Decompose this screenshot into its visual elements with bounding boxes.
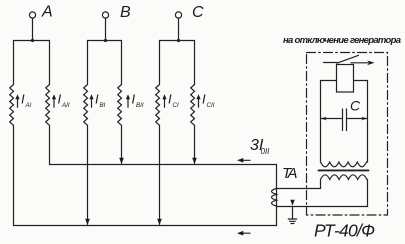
- node B junction: [104, 39, 107, 42]
- terminal B: [102, 12, 108, 18]
- wire branch B-I upper: [87, 41, 89, 85]
- arrow at ground tap: [290, 200, 294, 206]
- winding L-CI: [156, 85, 160, 126]
- wire branch B-II lower: [121, 125, 123, 163]
- winding L-AI: [10, 85, 14, 126]
- svg-text:I: I: [95, 92, 99, 107]
- svg-text:A: A: [41, 4, 53, 21]
- svg-text:AII: AII: [61, 102, 70, 109]
- relay contact blade: [337, 55, 359, 63]
- transformer T1 core: [319, 169, 369, 171]
- wire branch C-I upper: [159, 41, 161, 85]
- wire branch C-II lower: [194, 125, 196, 163]
- terminal C: [175, 12, 181, 18]
- transformer T1 primary winding: [321, 162, 368, 167]
- current arrow I_CI: [162, 92, 179, 110]
- transformer TA secondary winding: [272, 189, 277, 207]
- arrow left on capacitor branch: [321, 117, 327, 121]
- current arrow on bottom bus: [237, 231, 250, 236]
- wire B split: [88, 40, 122, 42]
- svg-text:BII: BII: [136, 102, 144, 109]
- node A junction: [31, 39, 34, 42]
- relay contact fixed lead: [324, 62, 338, 64]
- relay box border (dash-dot): [307, 53, 388, 216]
- svg-text:0II: 0II: [261, 147, 271, 156]
- relay element U1: [337, 65, 354, 93]
- winding L-BII: [118, 85, 122, 126]
- wire A split: [14, 40, 50, 42]
- wire left vertical: [320, 81, 322, 163]
- transformer TA primary wire: [276, 165, 278, 226]
- wire bottom bus: [14, 225, 277, 227]
- arrow right on capacitor branch: [361, 117, 367, 121]
- svg-text:I: I: [58, 92, 62, 107]
- label 3I0II: [250, 137, 270, 156]
- ground: [288, 207, 296, 224]
- current arrow I_AI: [15, 92, 31, 110]
- relay contact output arrow: [351, 60, 375, 65]
- arrow into bottom bus at C-I: [157, 219, 162, 225]
- current arrow I_CII: [196, 92, 214, 110]
- svg-text:TA: TA: [282, 165, 298, 182]
- current arrow 3I0II on upper bus: [237, 158, 250, 163]
- wire right vertical: [367, 81, 369, 163]
- wire upper bus: [50, 164, 277, 166]
- svg-text:C: C: [350, 98, 361, 114]
- wire branch B-II upper: [121, 41, 123, 85]
- terminal A: [29, 12, 35, 18]
- wire relay right lead: [354, 80, 368, 82]
- svg-text:B: B: [120, 4, 131, 21]
- winding L-CII: [191, 85, 195, 126]
- wire relay left lead: [321, 80, 337, 82]
- svg-text:I: I: [21, 92, 25, 107]
- wire branch A-I upper: [13, 41, 15, 85]
- current arrow I_AII: [52, 92, 70, 110]
- wire C drop: [178, 18, 180, 40]
- svg-text:BI: BI: [100, 102, 106, 109]
- svg-text:C: C: [192, 4, 204, 21]
- current arrow I_BI: [89, 92, 105, 110]
- wire branch A-I lower: [13, 125, 15, 225]
- wire branch C-I lower: [159, 125, 161, 224]
- svg-text:РТ-40/Ф: РТ-40/Ф: [314, 221, 375, 241]
- winding L-AII: [46, 85, 50, 126]
- current arrow I_BII: [126, 92, 144, 110]
- arrow into upper bus at C-II: [192, 158, 197, 164]
- node C junction: [177, 39, 180, 42]
- svg-text:I: I: [202, 92, 206, 107]
- wire TA secondary bottom lead: [277, 180, 368, 207]
- winding L-BI: [84, 85, 88, 126]
- wire A drop: [32, 18, 34, 40]
- wire C split: [160, 40, 195, 42]
- svg-text:CI: CI: [173, 102, 179, 109]
- svg-text:CII: CII: [207, 102, 215, 109]
- wire branch C-II upper: [194, 41, 196, 85]
- transformer T1 secondary winding: [321, 175, 368, 180]
- arrow into bottom bus at B-I: [85, 219, 90, 225]
- svg-text:I: I: [132, 92, 136, 107]
- svg-text:AI: AI: [25, 102, 32, 109]
- svg-text:I: I: [168, 92, 172, 107]
- arrow into upper bus at B-II: [119, 158, 124, 164]
- wire B drop: [105, 18, 107, 40]
- svg-text:на отключение генератора: на отключение генератора: [283, 35, 401, 46]
- wire branch A-II lower: [49, 125, 51, 164]
- wire branch B-I lower: [87, 125, 89, 224]
- wire TA secondary top lead: [277, 180, 321, 189]
- wire branch A-II upper: [49, 41, 51, 85]
- capacitor C: [321, 109, 368, 131]
